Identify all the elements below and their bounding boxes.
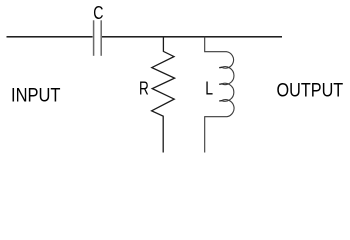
svg-text:L: L xyxy=(205,78,213,99)
wire: capacitor right plate to output, passing nodes at R and L xyxy=(102,36,282,38)
svg-text:C: C xyxy=(93,2,103,23)
svg-text:INPUT: INPUT xyxy=(11,86,61,107)
resistor R (zigzag with top/bottom leads) xyxy=(152,37,175,153)
coil cusp tail 3 xyxy=(219,100,222,102)
wire: input lead to capacitor left plate xyxy=(7,36,93,38)
inductor L (leads + 4 coil loops) xyxy=(205,37,234,153)
svg-text:OUTPUT: OUTPUT xyxy=(277,81,344,102)
coil cusp tail 1 xyxy=(219,66,222,68)
svg-text:R: R xyxy=(139,78,149,99)
capacitor C1 plates xyxy=(93,20,95,56)
coil cusp tail 2 xyxy=(219,83,222,85)
